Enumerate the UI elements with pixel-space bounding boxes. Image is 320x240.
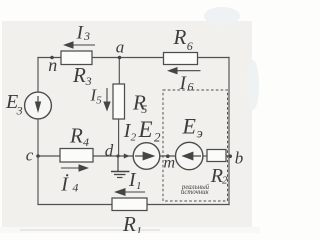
source E3 <box>25 92 52 119</box>
label real source caption <box>181 184 210 196</box>
label node d <box>105 141 114 160</box>
wire R5 branch upper (node a down to R5) <box>118 58 120 85</box>
current arrow I6 <box>167 67 201 74</box>
svg-text:6: 6 <box>187 39 193 53</box>
label node c <box>26 145 34 164</box>
label E2 <box>138 117 162 144</box>
resistor R5 <box>113 84 125 119</box>
resistor R1 <box>112 198 147 211</box>
svg-text:э: э <box>197 127 203 142</box>
current arrow I1 <box>114 188 145 196</box>
resistor R3 <box>61 51 92 65</box>
node a <box>118 56 122 60</box>
wire left rail upper (corner to E3) <box>37 58 39 93</box>
svg-text:2: 2 <box>222 175 228 187</box>
svg-text:m: m <box>164 155 176 172</box>
svg-text:5: 5 <box>96 95 102 107</box>
source E2 <box>133 143 160 170</box>
wire R5 branch lower (R5 down to node d) <box>118 119 120 156</box>
label node m <box>164 155 176 172</box>
svg-text:a: a <box>116 38 125 57</box>
svg-text:R: R <box>122 212 136 233</box>
label node b <box>235 149 244 168</box>
node d <box>116 154 119 157</box>
source E_eq <box>176 142 203 169</box>
label R5 <box>132 91 147 116</box>
paper background <box>0 0 260 233</box>
wire left rail lower (E3 to bottom corner through node c) <box>37 119 39 205</box>
resistor R2 <box>207 150 226 162</box>
resistor R4 <box>60 149 93 163</box>
node b <box>228 154 232 158</box>
node c <box>36 154 40 158</box>
svg-text:1: 1 <box>136 224 142 234</box>
wire top rail left segment (corner to R3) <box>38 57 61 59</box>
wire bottom rail right segment (R1 to bottom-right corner) <box>147 204 229 206</box>
label I5 <box>90 86 103 107</box>
wire mid rail R4 to E2 through node d <box>93 155 133 157</box>
svg-text:R: R <box>72 63 86 87</box>
label I2 <box>123 120 137 143</box>
svg-text:R: R <box>69 123 83 147</box>
label R3 <box>72 63 92 88</box>
svg-text:R: R <box>173 25 187 49</box>
label I1 <box>128 169 142 192</box>
svg-text:5: 5 <box>141 102 147 116</box>
wire top rail right segment (R6 to top-right corner) <box>198 57 230 59</box>
node n <box>50 56 54 60</box>
wire mid rail R2 to node b <box>226 155 229 157</box>
label R6 <box>173 25 193 53</box>
svg-text:1: 1 <box>136 180 142 192</box>
svg-text:I: I <box>60 174 69 196</box>
ground at node d <box>111 156 130 178</box>
wire top rail middle segment (R3 to R6 through node a) <box>92 57 164 59</box>
svg-text:E: E <box>138 117 153 142</box>
label R1 <box>122 212 142 238</box>
svg-text:2: 2 <box>154 129 161 144</box>
current arrow I4 <box>61 164 89 171</box>
svg-text:4: 4 <box>72 181 78 195</box>
label R4 <box>69 123 89 149</box>
resistor R6 <box>164 53 198 65</box>
label node n <box>48 55 57 75</box>
svg-text:c: c <box>26 145 34 164</box>
svg-text:b: b <box>235 149 244 168</box>
svg-text:3: 3 <box>16 103 23 117</box>
wire mid rail E_eq to R2 <box>203 155 207 157</box>
label R2 <box>210 165 228 187</box>
node m <box>166 154 170 158</box>
svg-text:4: 4 <box>83 135 89 149</box>
svg-text:n: n <box>48 55 57 75</box>
current arrow I5 <box>103 88 110 112</box>
wire mid rail c to R4 <box>38 155 60 157</box>
svg-text:3: 3 <box>83 29 90 43</box>
label E3 <box>5 91 23 118</box>
label I3 <box>76 22 90 43</box>
svg-text:источник: источник <box>181 189 210 196</box>
wire bottom rail left segment (corner to R1) <box>38 204 112 206</box>
dashed enclosure real source <box>163 90 228 201</box>
label node a <box>116 38 125 57</box>
wire mid rail E2 to E_eq through node m <box>160 155 176 157</box>
current arrow I2 (on wire before E2) <box>124 154 130 159</box>
label E_eq <box>182 114 203 142</box>
svg-text:d: d <box>105 141 114 160</box>
label I6 <box>179 73 194 94</box>
svg-text:2: 2 <box>131 132 137 144</box>
svg-text:6: 6 <box>188 80 194 94</box>
current arrow I3 <box>63 41 95 48</box>
label I4 (with phasor dot) <box>60 174 78 196</box>
wire right rail <box>228 58 230 205</box>
svg-text:E: E <box>182 114 197 139</box>
